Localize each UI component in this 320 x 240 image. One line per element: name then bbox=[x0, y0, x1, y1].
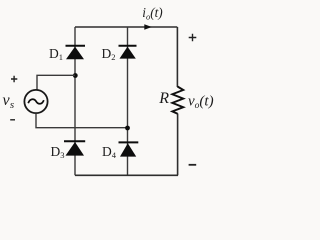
wire load branch bottom stub bbox=[177, 114, 179, 176]
diode D3 bbox=[64, 141, 85, 155]
svg-text:R: R bbox=[158, 90, 169, 107]
svg-text:vo(t): vo(t) bbox=[188, 94, 214, 112]
svg-text:D2: D2 bbox=[102, 46, 116, 62]
node A junction dot bbox=[73, 73, 78, 78]
wire left branch vertical bbox=[74, 27, 76, 175]
resistor R zigzag bbox=[172, 87, 183, 114]
wire right bridge branch vertical bbox=[127, 27, 129, 175]
svg-text:D3: D3 bbox=[51, 144, 65, 160]
wire load branch top stub bbox=[176, 27, 178, 87]
node B junction dot bbox=[125, 126, 130, 131]
svg-text:vs: vs bbox=[3, 92, 15, 111]
wire source bottom to node B bbox=[36, 113, 128, 127]
label + source bbox=[11, 76, 17, 82]
wire top rail bbox=[75, 26, 177, 28]
label minus source bbox=[10, 119, 15, 121]
wire bottom rail bbox=[75, 174, 178, 176]
arrow i_o direction bbox=[144, 24, 152, 30]
source vs circle bbox=[24, 90, 47, 113]
diode D4 bbox=[119, 142, 139, 156]
diode D1 bbox=[66, 46, 86, 59]
source sine wave bbox=[28, 99, 44, 104]
svg-text:io(t): io(t) bbox=[142, 5, 162, 22]
diode D2 bbox=[119, 46, 137, 59]
label + load bbox=[189, 34, 197, 41]
label minus load bbox=[189, 164, 197, 166]
wire source top to node A bbox=[37, 75, 75, 90]
svg-text:D4: D4 bbox=[102, 144, 117, 160]
svg-text:D1: D1 bbox=[49, 46, 63, 62]
